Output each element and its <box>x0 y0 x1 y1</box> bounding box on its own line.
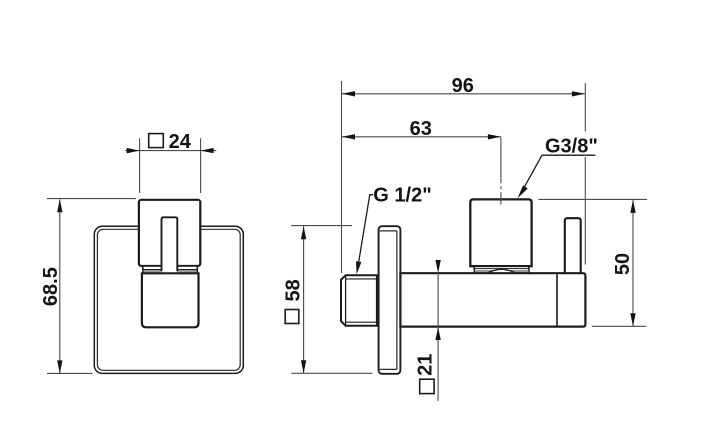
side view: horizontal valve body tube <box>400 273 585 326</box>
front view: adapter band under handle <box>143 266 197 273</box>
dimension 68.5: dimension line <box>59 199 61 373</box>
side view: G1/2 threaded inlet <box>341 275 377 325</box>
dimension 63: dimension line <box>342 136 501 138</box>
side view: wall plate outer contour <box>379 226 401 374</box>
front view: wall plate inner contour <box>97 229 240 370</box>
dimension 24: arrows <box>127 148 140 153</box>
dimension 50: extension lines <box>538 199 647 326</box>
side view: lever pin <box>565 218 581 273</box>
svg-text:G 1/2": G 1/2" <box>373 184 431 206</box>
label G 1/2" leader <box>357 195 373 272</box>
svg-text:G3/8": G3/8" <box>545 135 598 157</box>
front view: wall plate outer contour <box>94 226 243 373</box>
svg-text:68.5: 68.5 <box>40 267 62 306</box>
svg-text:96: 96 <box>452 75 474 97</box>
side view: threaded neck under block <box>474 266 529 273</box>
dimension 96: extension lines <box>342 81 586 273</box>
dimension 68.5: extension lines <box>47 199 136 374</box>
svg-text:24: 24 <box>169 131 192 153</box>
dimension 63: centerline to block <box>500 137 502 204</box>
front view: valve body square <box>142 273 199 327</box>
svg-text:21: 21 <box>414 354 436 376</box>
side view: top block (handle / G3/8 connection) <box>470 199 531 266</box>
side view: wall plate inner line <box>380 231 397 370</box>
dimension square21: square symbol <box>420 379 434 393</box>
front view: lever <box>162 217 178 272</box>
dimension 63: arrows <box>342 134 355 139</box>
dimension 96: arrows <box>342 91 355 96</box>
side view: body end-cap joint line <box>556 274 558 325</box>
dimension 96: dimension line <box>342 93 585 95</box>
dimension 50: dimension line <box>632 200 634 326</box>
dimension 24: dimension line <box>125 150 216 152</box>
dimension 24: extension lines <box>125 138 216 193</box>
svg-text:50: 50 <box>612 253 634 275</box>
dimension 24: square symbol <box>149 134 164 148</box>
dimension square21: arrows <box>435 260 440 273</box>
dimension 68.5: arrows <box>57 199 62 212</box>
dimension 50: arrows <box>630 200 635 213</box>
dimension square58: square symbol <box>285 310 299 324</box>
svg-text:58: 58 <box>283 279 305 301</box>
dimension square21: dimension line <box>437 273 439 401</box>
dimension square58: arrows <box>301 226 306 239</box>
label G3/8" leader <box>520 155 595 194</box>
front view: handle body <box>139 200 200 266</box>
dimension square58: dimension line <box>303 226 305 373</box>
dimension square58: extension lines <box>291 226 372 374</box>
svg-text:63: 63 <box>410 118 432 140</box>
